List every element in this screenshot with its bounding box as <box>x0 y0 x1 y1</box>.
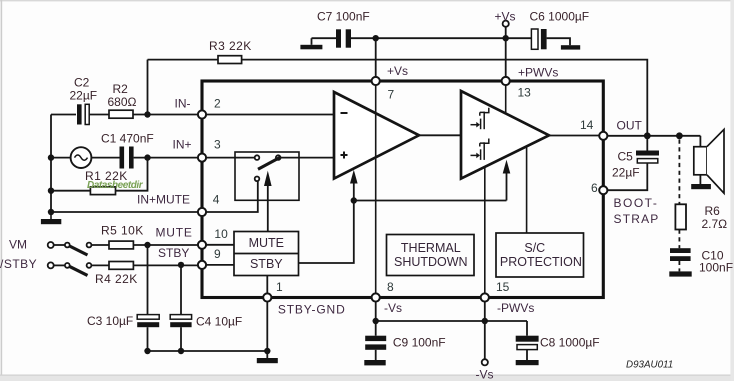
switch VM <box>48 242 92 255</box>
svg-text:C9 100nF: C9 100nF <box>393 336 446 350</box>
wire pin13 supply vertical <box>505 38 507 79</box>
svg-text:C5: C5 <box>618 150 634 164</box>
block S/C PROTECTION <box>496 233 584 277</box>
svg-text:680Ω: 680Ω <box>108 95 137 109</box>
wire IN- from C2 left <box>51 114 76 116</box>
svg-text:R5 10K: R5 10K <box>101 224 144 238</box>
wire VM terminal <box>54 244 65 246</box>
switch block S1 <box>235 152 299 200</box>
capacitor C5 <box>636 151 659 164</box>
wire pin13 into A2 <box>505 83 507 115</box>
wire R3 to OUT node (feedback) <box>242 60 648 133</box>
pin 4 <box>198 208 206 216</box>
wire C5 to pin6 <box>606 163 648 190</box>
resistor R5 <box>109 241 133 249</box>
svg-text:10: 10 <box>214 227 228 241</box>
capacitor C6 <box>531 29 546 49</box>
svg-text:R6: R6 <box>705 204 721 218</box>
svg-text:D93AU011: D93AU011 <box>626 359 673 370</box>
svg-text:STBY: STBY <box>250 257 283 271</box>
wire -Vs rail <box>376 320 527 322</box>
svg-text:C1 470nF: C1 470nF <box>101 132 154 146</box>
resistor R4 <box>109 262 133 270</box>
svg-text:C8 1000µF: C8 1000µF <box>540 336 600 350</box>
ground C6 <box>561 45 580 49</box>
svg-text:C2: C2 <box>74 76 90 90</box>
terminal -Vs <box>482 359 488 365</box>
wire OUT <box>606 135 701 137</box>
wire STBY block to mute node <box>299 201 354 264</box>
wire ground to C7 <box>312 37 337 39</box>
svg-text:/STBY: /STBY <box>0 257 37 271</box>
junction IN+ node <box>144 154 150 160</box>
svg-text:Datasheetdir: Datasheetdir <box>87 180 144 191</box>
svg-text:-Vs: -Vs <box>476 368 494 381</box>
wire IN+MUTE <box>51 211 199 213</box>
wire zobel dashed to R6 <box>678 140 680 205</box>
wire A2 to S/C block <box>526 148 528 234</box>
svg-text:STBY: STBY <box>158 246 189 260</box>
wire bottom rail <box>148 350 268 352</box>
wire A1 output to A2 <box>419 134 461 136</box>
wire R1 to rail <box>51 190 90 192</box>
wire pin15 to -Vs terminal <box>484 301 486 359</box>
ground C10 <box>669 271 691 276</box>
wire R1 branch vertical <box>116 158 148 191</box>
wire pin10 to MUTE block <box>204 244 234 246</box>
wire A2 to pin15 <box>484 168 486 296</box>
wire R5 to pin10 <box>133 244 199 246</box>
wire pin7 to pin8 through amp <box>375 83 377 296</box>
pin 7 <box>372 77 380 85</box>
svg-text:22µF: 22µF <box>70 89 98 103</box>
wire R4 to pin9 <box>133 264 199 266</box>
terminal +Vs <box>503 21 509 39</box>
wire mute arrow into A2 <box>503 160 511 201</box>
wire pin3 to switch <box>204 157 256 159</box>
svg-text:+Vs: +Vs <box>387 64 408 78</box>
junction IN- node <box>144 111 150 117</box>
wire C4 to bottom rail <box>180 327 182 351</box>
ground left rail <box>41 212 61 224</box>
svg-text:2.7Ω: 2.7Ω <box>702 217 728 231</box>
capacitor C4 <box>170 315 191 328</box>
IC package U1 <box>202 81 603 298</box>
resistor R2 <box>109 110 133 118</box>
wire C6 to ground <box>547 38 570 45</box>
wire pin1 to bottom rail <box>266 301 268 351</box>
svg-text:4: 4 <box>213 193 220 207</box>
svg-text:100nF: 100nF <box>699 260 733 274</box>
resistor R6 <box>675 204 686 229</box>
ground stby <box>257 351 278 363</box>
wire R3 left <box>148 59 219 61</box>
wire C8 branch <box>526 321 528 336</box>
svg-text:15: 15 <box>496 280 510 294</box>
resistor R1 <box>90 187 115 195</box>
ground C7 <box>300 38 322 49</box>
svg-text:THERMAL: THERMAL <box>401 241 461 255</box>
wire OUT to C5 <box>646 136 648 151</box>
junction stby-C4 <box>178 262 184 268</box>
wire C1 to pin3 <box>134 157 199 159</box>
wire C9 to ground <box>375 350 377 360</box>
wire rail to source <box>51 157 71 159</box>
junction mute node <box>351 197 357 203</box>
svg-text:C7 100nF: C7 100nF <box>317 9 370 23</box>
wire source to C1 <box>91 157 119 159</box>
speaker LS <box>694 129 724 193</box>
pin 10 <box>198 241 206 249</box>
junction rail-R1 <box>48 188 54 194</box>
svg-text:R4 22K: R4 22K <box>95 272 138 286</box>
junction -Vs rail pin15 <box>482 318 488 324</box>
svg-text:SHUTDOWN: SHUTDOWN <box>394 255 468 269</box>
junction -Vs rail left <box>373 318 379 324</box>
pin 2 <box>198 110 206 118</box>
wire switch to R4 <box>91 264 109 266</box>
junction rail-source <box>48 154 54 160</box>
wire C3 vertical <box>147 245 149 315</box>
svg-text:IN+MUTE: IN+MUTE <box>137 193 190 207</box>
capacitor C2 <box>77 104 89 124</box>
pin 14 <box>599 132 607 140</box>
svg-text:+Vs: +Vs <box>495 10 516 24</box>
ground C8 <box>516 360 539 365</box>
wire C2 to R2 <box>90 114 109 116</box>
svg-text:C4 10µF: C4 10µF <box>196 315 242 329</box>
svg-text:C3 10µF: C3 10µF <box>87 314 133 328</box>
wire pin2 to op-amp inverting input <box>204 114 334 116</box>
source AC input <box>71 147 92 168</box>
svg-text:BOOT-: BOOT- <box>614 196 659 210</box>
switch /STBY <box>48 262 92 275</box>
svg-text:-Vs: -Vs <box>384 301 402 315</box>
svg-text:S/C: S/C <box>524 241 545 255</box>
wire A2 output to pin14 <box>549 135 601 137</box>
svg-text:-PWVs: -PWVs <box>497 301 534 315</box>
junction OUT zobel <box>676 132 683 139</box>
junction OUT feedback <box>644 132 651 139</box>
pin 6 <box>599 186 607 194</box>
svg-text:VM: VM <box>9 238 27 252</box>
transistor lower MOSFET <box>471 139 489 160</box>
svg-text:STBY-GND: STBY-GND <box>278 303 346 317</box>
svg-text:8: 8 <box>387 280 394 294</box>
pin 9 <box>198 261 206 269</box>
wire C3 to bottom rail <box>147 327 149 351</box>
svg-text:3: 3 <box>214 138 221 152</box>
svg-text:13: 13 <box>518 86 532 100</box>
svg-text:R2: R2 <box>113 82 129 96</box>
pin 13 <box>502 77 510 85</box>
svg-text:7: 7 <box>388 88 395 102</box>
junction +Vs node <box>503 35 509 41</box>
wire C4 vertical <box>180 265 182 315</box>
wire switch to op-amp noninverting input <box>278 157 334 159</box>
svg-text:MUTE: MUTE <box>156 226 193 240</box>
wire left rail <box>50 115 52 213</box>
pin 3 <box>198 154 206 162</box>
pin 1 <box>263 293 271 301</box>
wire STBY block to pin1 <box>266 276 268 295</box>
wire pin7 supply vertical <box>375 38 377 79</box>
block THERMAL SHUTDOWN <box>387 235 475 276</box>
junction mute-C3 <box>144 242 150 248</box>
wire mute arrow into switch <box>264 171 272 232</box>
svg-text:C6 1000µF: C6 1000µF <box>530 10 590 24</box>
junction C7 pin7 <box>373 35 379 41</box>
capacitor C3 <box>137 315 159 328</box>
wire mute node to A2 arrow <box>354 200 507 202</box>
svg-text:MUTE: MUTE <box>249 236 284 250</box>
svg-text:9: 9 <box>214 247 221 261</box>
capacitor C10 <box>670 248 691 261</box>
ground speaker <box>691 175 711 189</box>
svg-text:IN-: IN- <box>175 97 191 111</box>
svg-text:1: 1 <box>276 280 283 294</box>
capacitor C7 <box>336 29 351 47</box>
transistor upper MOSFET <box>471 108 489 129</box>
wire R2 to pin2 <box>133 114 199 116</box>
wire R3 branch vertical <box>147 60 149 115</box>
pin 8 <box>372 293 380 301</box>
svg-text:14: 14 <box>580 118 594 132</box>
svg-text:22µF: 22µF <box>612 166 640 180</box>
svg-text:2: 2 <box>214 97 221 111</box>
wire C10 to ground dashed <box>678 261 680 271</box>
wire /STBY terminal <box>54 264 65 266</box>
svg-text:PROTECTION: PROTECTION <box>500 255 582 269</box>
svg-text:IN+: IN+ <box>173 138 192 152</box>
wire OUT to speaker <box>699 136 701 147</box>
wire +Vs to C6 <box>506 37 532 39</box>
capacitor C8 <box>516 336 539 350</box>
wire pin8 down <box>375 301 377 336</box>
op-amp A2 power stage <box>461 91 549 179</box>
wire C7 to +Vs node <box>351 37 506 39</box>
capacitor C1 <box>120 147 134 169</box>
wire pin4 to switch lower contact <box>204 182 258 213</box>
wire mute arrow into A1 <box>350 170 358 201</box>
wire pin9 to STBY block <box>204 264 234 266</box>
block MUTE/STBY <box>234 232 299 276</box>
op-amp A1 <box>334 92 419 179</box>
svg-text:6: 6 <box>591 181 598 195</box>
wire C8 to ground <box>526 350 528 360</box>
capacitor C9 <box>365 336 386 350</box>
pin 15 <box>481 293 489 301</box>
junction bottom rail C3 <box>144 348 150 354</box>
junction bottom rail pin1 <box>264 348 270 354</box>
junction bottom rail C4 <box>178 348 184 354</box>
wire switch to R5 <box>91 244 109 246</box>
ground C9 <box>364 360 385 365</box>
svg-text:OUT: OUT <box>617 119 643 133</box>
resistor R3 <box>218 56 242 64</box>
svg-text:STRAP: STRAP <box>614 212 660 226</box>
svg-text:R3 22K: R3 22K <box>209 39 252 53</box>
junction rail-ground <box>48 209 54 215</box>
wire R6 to C10 dashed <box>678 230 680 249</box>
svg-text:+PWVs: +PWVs <box>518 66 558 80</box>
